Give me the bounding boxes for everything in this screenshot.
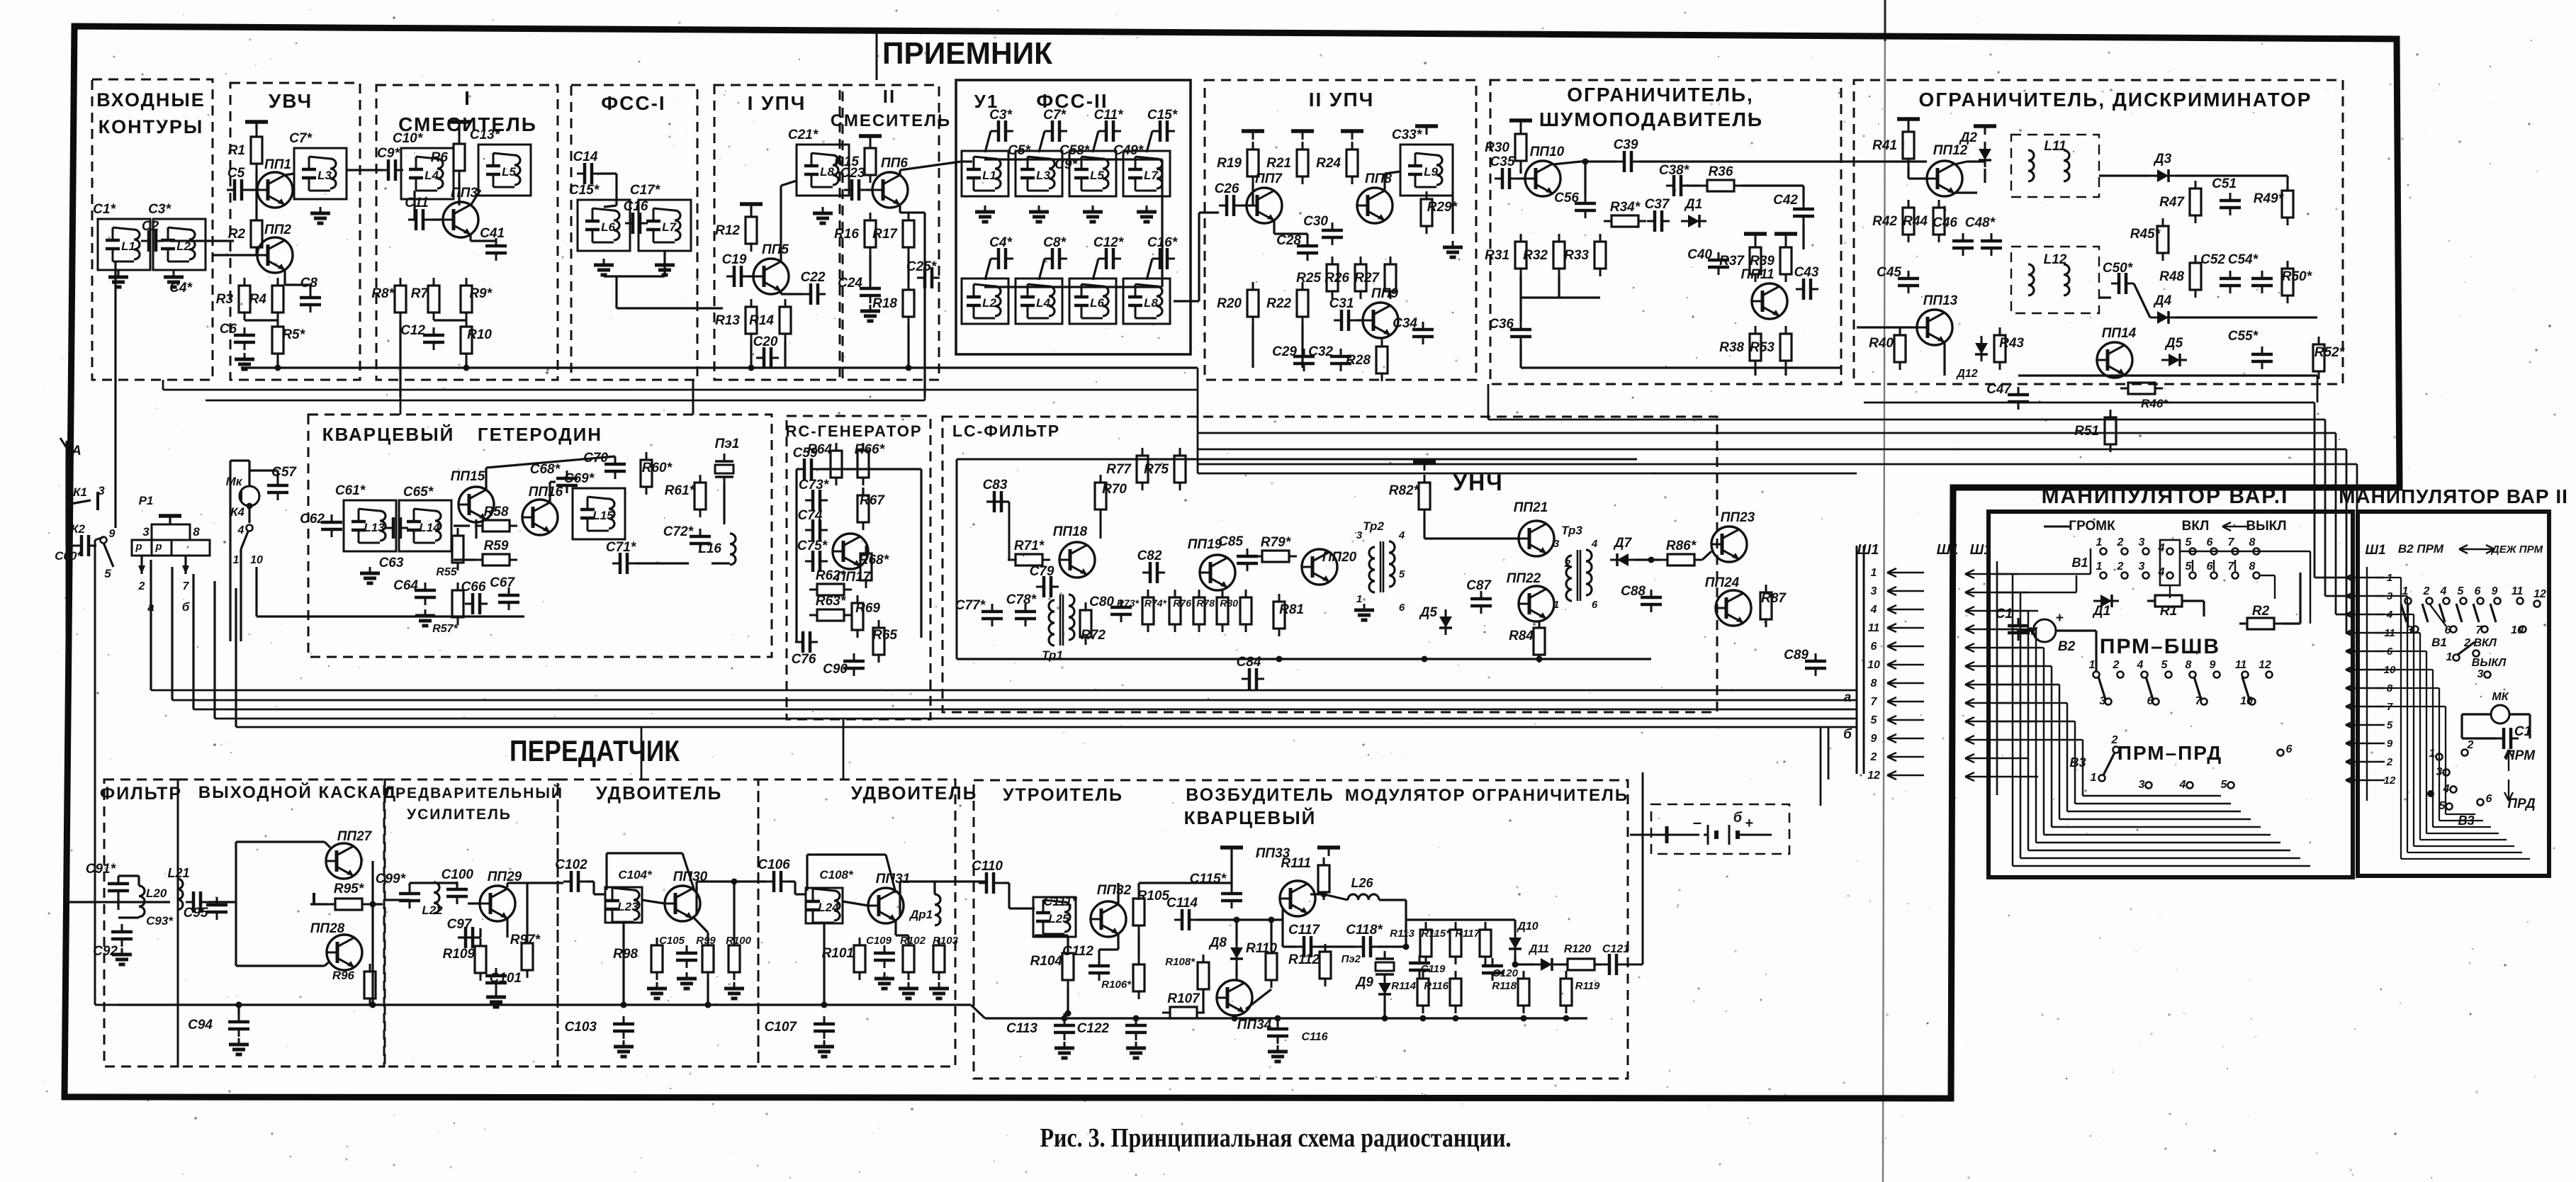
svg-text:L6: L6 [1090,296,1104,310]
wire [806,855,808,891]
svg-text:1: 1 [2096,536,2103,548]
diode Д10 [1509,930,1522,956]
svg-text:3: 3 [2139,536,2145,548]
inductor L20 [139,886,145,917]
svg-text:+: + [2055,611,2063,626]
svg-text:R17: R17 [872,227,898,242]
capacitor C83 [986,491,1009,512]
svg-text:11: 11 [1868,622,1880,634]
svg-text:R111: R111 [1281,856,1311,871]
svg-text:УТРОИТЕЛЬ: УТРОИТЕЛЬ [1003,785,1123,805]
LC tank L3 C7* [294,148,347,199]
resistor R60* [641,452,652,495]
wire [663,252,665,276]
ground [486,991,506,1007]
resistor R6 [454,136,465,179]
capacitor C82 [1142,562,1165,583]
wire [750,342,752,368]
wire [1093,259,1098,280]
wire [780,186,782,262]
wire [213,581,215,719]
wire [641,727,643,779]
capacitor C78* [1015,604,1036,626]
svg-text:11: 11 [2235,659,2247,671]
svg-text:R80: R80 [1220,597,1238,609]
wire [370,903,383,905]
svg-text:К4: К4 [230,505,244,519]
power tap [1413,462,1436,471]
ground [235,353,254,369]
wire [1202,990,1204,1013]
svg-text:L4: L4 [424,169,439,182]
power tap [1897,119,1920,128]
svg-text:L9: L9 [1424,165,1438,179]
wire bus [172,699,1857,702]
capacitor C102 [563,871,586,892]
resistor R110 [1266,945,1277,988]
wire [1001,882,1009,884]
wire [1997,592,2020,594]
svg-text:R78: R78 [1196,597,1215,609]
svg-text:Д5: Д5 [2164,336,2183,351]
diode Д5 [2161,354,2187,366]
svg-text:Д8: Д8 [1208,935,1227,950]
wire [907,325,909,368]
svg-text:ПП1: ПП1 [264,157,291,172]
ground [655,259,675,275]
wire [2375,687,2439,689]
svg-text:R42: R42 [1872,214,1897,229]
wire [171,567,173,700]
wire [1147,259,1152,280]
wire [1383,174,1385,191]
svg-text:R77: R77 [1106,462,1132,477]
svg-text:ПП19: ПП19 [1188,537,1222,552]
svg-text:ПП27: ПП27 [337,829,373,844]
svg-text:9: 9 [2210,659,2216,671]
block КВАРЦЕВЫЙ ГЕТЕРОДИН [308,415,772,657]
connector pin [2346,592,2385,600]
connector Ш1 (left) [1856,546,1858,774]
capacitor C74 [805,519,828,541]
svg-text:ФСС-I: ФСС-I [601,92,665,114]
svg-text:МК: МК [2492,691,2509,703]
svg-text:R1: R1 [2160,604,2177,619]
wire [479,928,481,938]
svg-text:Пэ1: Пэ1 [715,437,740,451]
svg-text:C9*: C9* [377,146,400,161]
svg-text:C1: C1 [1996,607,2013,621]
connector pin [1965,607,2038,615]
resistor R72 [1080,602,1091,645]
wire [869,255,871,281]
svg-text:4: 4 [2158,542,2165,554]
svg-text:6: 6 [2486,793,2492,805]
capacitor C62 [321,514,342,537]
svg-text:Д4: Д4 [2153,293,2172,308]
antenna A [60,438,73,459]
resistor R69 [852,595,863,638]
svg-text:L2: L2 [176,240,191,253]
svg-text:R71*: R71* [1014,539,1045,553]
svg-text:4: 4 [1398,529,1405,541]
wire [469,235,471,241]
svg-text:L20: L20 [146,886,167,900]
svg-text:5: 5 [2387,719,2393,731]
svg-text:C52: C52 [2200,252,2225,267]
wire [1067,988,1069,1013]
svg-text:R81: R81 [1279,602,1304,617]
svg-text:L11: L11 [2044,139,2066,154]
svg-text:C54*: C54* [2228,252,2259,267]
capacitor C14 [577,163,600,184]
svg-text:ШУМОПОДАВИТЕЛЬ: ШУМОПОДАВИТЕЛЬ [1539,108,1763,130]
svg-text:C48*: C48* [1965,215,1996,230]
capacitor C2 [141,230,164,252]
LC tank L2 C3* [153,219,206,270]
block I УПЧ [714,85,840,380]
svg-text:C43: C43 [1794,265,1819,280]
wire [2176,316,2317,318]
svg-text:C4*: C4* [989,235,1013,250]
svg-text:R61*: R61* [665,483,696,498]
svg-text:10: 10 [2511,624,2524,636]
capacitor C76 [795,631,818,653]
wire [1252,184,1254,206]
svg-text:R103: R103 [933,935,959,947]
wire [2335,433,2337,614]
wire [471,190,480,206]
svg-text:C55*: C55* [2228,329,2259,344]
svg-text:3: 3 [2139,561,2145,573]
svg-text:C38*: C38* [1659,163,1690,178]
wire [255,567,257,617]
svg-text:R34*: R34* [1610,200,1641,215]
capacitor C112 [1089,958,1110,981]
svg-text:L12: L12 [2044,252,2067,267]
svg-text:C118*: C118* [1346,923,1383,938]
capacitor C47 [2008,387,2029,410]
wire [1997,665,2052,668]
svg-text:7: 7 [183,580,190,592]
svg-text:L2: L2 [982,296,996,310]
ground [360,567,380,583]
resistor R64 [831,443,842,485]
svg-text:4: 4 [2158,566,2165,578]
resistor R1 [251,129,262,171]
wire [2462,713,2491,715]
wire [117,899,119,910]
transistor ПП1 [257,172,293,208]
wire [1423,517,1425,539]
wire [1955,162,1967,164]
capacitor C16 [625,213,648,234]
inductor L16 [730,534,736,565]
wire [383,901,410,903]
connector pin [2346,647,2385,655]
capacitor C43 [1796,278,1818,300]
LC tank L5 [1069,151,1116,196]
svg-text:C111*: C111* [1043,894,1077,908]
svg-text:ПП2: ПП2 [264,223,291,237]
power tap [740,204,763,213]
connector pin [1965,662,2038,670]
connector pin [1965,588,2028,597]
transistor ПП32 [1091,901,1126,937]
svg-text:8: 8 [2186,659,2192,671]
resistor R3 [239,278,250,320]
wire [586,880,594,882]
resistor R15 [865,140,876,183]
svg-text:ПРЕДВАРИТЕЛЬНЫЙ: ПРЕДВАРИТЕЛЬНЫЙ [383,784,563,801]
wire [475,519,477,539]
svg-text:C85: C85 [1218,534,1243,549]
resistor R104 [1062,945,1074,988]
resistor R17 [903,213,914,255]
resistor R18 [903,282,914,325]
capacitor C39 [1616,151,1639,172]
wire [1754,368,1756,376]
resistor R8* [395,278,406,320]
svg-text:6: 6 [2207,561,2213,573]
ground [647,982,667,998]
svg-text:+: + [1745,816,1753,831]
svg-text:C15*: C15* [569,183,600,198]
wire [1147,131,1152,152]
capacitor C75* [805,551,828,572]
wire [2356,464,2358,651]
wire [2375,651,2426,652]
wire [2261,575,2275,576]
block УВЧ [230,83,360,380]
capacitor C64 [415,582,436,605]
svg-text:C78*: C78* [1006,592,1037,607]
svg-text:C5: C5 [227,166,245,181]
block LC-ФИЛЬТР / УНЧ [943,417,1717,712]
capacitor C30 [1322,223,1343,245]
wire [1117,934,1119,950]
svg-text:R9*: R9* [469,286,493,301]
svg-text:8: 8 [2249,536,2256,548]
resistor R30 [1515,126,1526,169]
wire [605,853,607,890]
wire [1235,964,1237,981]
svg-text:L7: L7 [1144,169,1159,182]
svg-text:R100: R100 [726,935,752,947]
svg-text:C8: C8 [300,276,318,291]
power tap [448,122,471,130]
capacitor C80 [1110,600,1132,622]
svg-text:R40: R40 [1869,336,1894,351]
wire [2099,296,2111,298]
wire [1997,739,2083,741]
svg-text:C74: C74 [798,508,823,523]
svg-text:R32: R32 [1523,248,1548,263]
LC tank L3 [1016,151,1062,196]
capacitor С1 [2496,728,2519,749]
capacitor C89 [1805,653,1826,676]
svg-text:ГЕТЕРОДИН: ГЕТЕРОДИН [478,424,602,445]
wire [2346,449,2348,633]
svg-text:Мк: Мк [226,475,243,488]
wire [682,853,694,891]
svg-text:C109: C109 [866,935,892,947]
LC tank L25 [1033,897,1076,937]
capacitor C11 [408,209,431,230]
svg-text:В1: В1 [2431,636,2447,649]
svg-text:R19: R19 [1217,156,1242,171]
capacitor C3* [991,120,1013,142]
wire [876,31,878,80]
svg-text:R30: R30 [1485,140,1509,155]
wire [117,876,119,880]
svg-text:ВЫКЛ: ВЫКЛ [2246,519,2286,534]
capacitor C87 [1470,591,1492,614]
svg-text:5: 5 [2161,659,2169,671]
svg-text:МАНИПУЛЯТОР ВАР II: МАНИПУЛЯТОР ВАР II [2339,485,2568,507]
svg-text:Д9: Д9 [1355,975,1374,990]
svg-text:ПП24: ПП24 [1705,575,1740,590]
LC tank L4 C10* [401,148,454,199]
svg-text:R118: R118 [1492,980,1517,992]
wire [458,179,460,206]
svg-text:L3: L3 [1036,169,1050,182]
svg-text:C9*: C9* [1054,157,1078,172]
svg-text:C29: C29 [1272,344,1297,359]
svg-text:C116: C116 [1301,1031,1327,1043]
wire [2324,420,2327,596]
svg-text:R79*: R79* [1261,535,1292,550]
wire [843,901,868,906]
svg-text:C47: C47 [1986,382,2012,397]
transistor ПП13 [1917,310,1952,345]
LC tank L6 C15* [578,200,630,251]
svg-text:II УПЧ: II УПЧ [1309,89,1375,111]
svg-text:C31: C31 [1329,296,1354,311]
resistor R70 [1095,475,1106,517]
battery block [1651,804,1789,854]
svg-text:R1: R1 [228,143,245,158]
capacitor C55* [2251,347,2273,369]
svg-text:R57*: R57* [432,623,458,635]
resistor R58 [475,520,517,531]
svg-text:ПП15: ПП15 [451,469,485,484]
svg-text:В2: В2 [2058,639,2076,654]
wire [526,883,528,935]
svg-text:R107: R107 [1167,991,1200,1006]
LC tank L24 [806,888,843,923]
power tap [245,122,268,130]
ground [1126,1042,1146,1058]
wire [1997,721,2075,723]
svg-text:LC-ФИЛЬТР: LC-ФИЛЬТР [952,422,1060,440]
svg-text:C32: C32 [1308,344,1333,359]
wire [1244,988,1271,1012]
resistor R2 [251,213,262,255]
wire [283,270,286,285]
svg-text:R73*: R73* [1117,597,1140,609]
capacitor C91* [108,876,129,899]
transistor ПП11 [1752,283,1787,319]
transistor ПП3 [443,202,478,237]
resistor R97* [522,935,533,978]
svg-text:L13: L13 [364,521,385,534]
svg-text:R39: R39 [1750,254,1774,269]
wire [431,218,443,220]
wire [1230,848,1232,887]
capacitor C63 [386,517,408,539]
svg-text:2: 2 [2423,585,2430,597]
resistor R52* [2313,337,2324,379]
wire [1702,551,1711,560]
wire [986,500,1009,502]
svg-text:C103: C103 [565,1020,597,1035]
wire [692,916,708,933]
microphone M [2033,619,2056,642]
svg-text:L8: L8 [820,165,834,179]
resistor R26 [1355,257,1366,299]
transistor ПП20 [1302,549,1337,585]
svg-text:7: 7 [2476,624,2483,636]
svg-text:C88: C88 [1621,584,1646,599]
svg-text:УДВОИТЕЛЬ: УДВОИТЕЛЬ [851,782,978,804]
resistor R86* [1660,554,1702,565]
transistor ПП29 [480,886,515,921]
capacitor C32 [1330,349,1351,371]
svg-text:4: 4 [2440,585,2447,597]
svg-text:R82*: R82* [1389,483,1420,498]
svg-text:C58*: C58* [1059,143,1091,158]
svg-text:C37: C37 [1645,197,1670,212]
wire [604,853,606,887]
svg-text:12: 12 [2384,775,2396,787]
ground [614,1040,634,1057]
LC tank L5 C13* [478,145,531,196]
svg-text:10: 10 [250,554,263,566]
resistor R71* [1008,554,1050,565]
transistor ПП19 [1200,555,1235,590]
svg-text:C120: C120 [1492,967,1519,979]
svg-text:C83: C83 [983,478,1008,492]
resistor R4 [272,278,283,320]
svg-text:C101: C101 [490,971,522,986]
wire [615,276,617,308]
wire [213,254,257,256]
resistor R101 [854,938,865,980]
wire bus [236,726,1857,728]
resistor R98 [651,938,663,980]
svg-text:УДВОИТЕЛЬ: УДВОИТЕЛЬ [596,782,723,804]
block ПРЕДВАРИТЕЛЬНЫЙ УСИЛИТЕЛЬ [385,779,558,1066]
svg-text:C30: C30 [1303,214,1328,229]
resistor R81 [1273,594,1285,636]
resistor R112 [1320,944,1331,986]
resistor R10 [461,319,472,361]
wire [1997,684,2059,686]
ground [1137,206,1157,222]
svg-text:C79: C79 [1030,564,1054,579]
wire [985,131,991,152]
svg-text:R46*: R46* [2141,397,2169,410]
svg-text:R48: R48 [2159,269,2184,284]
svg-text:12: 12 [1867,770,1880,782]
capacitor C37 [1647,210,1670,232]
capacitor C24 [860,281,881,303]
svg-text:8: 8 [1871,677,1877,689]
resistor R42 [1903,200,1914,242]
wire [1117,882,1119,884]
svg-text:ОГРАНИЧИТЕЛЬ,: ОГРАНИЧИТЕЛЬ, [1567,84,1754,106]
